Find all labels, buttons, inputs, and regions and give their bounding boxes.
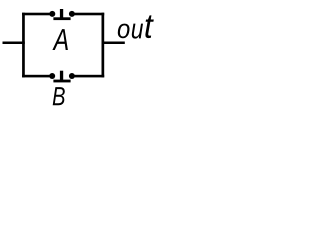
wire: top rail right segment [72,13,104,16]
wire: right branch vertical [102,13,105,78]
switch A plunger bar [53,17,70,20]
switch A plunger stem [60,9,63,18]
switch B contact dot right [69,73,75,79]
label B [53,87,65,105]
label out letter o [118,24,130,39]
switch B plunger bar [53,80,70,83]
switch B contact dot left [49,73,55,79]
switch A contact dot left [49,11,55,17]
wire: bottom rail left segment [22,75,52,78]
switch B plunger stem [60,71,63,81]
wire: bottom rail right segment [72,75,104,78]
label A [52,29,67,50]
label out letter u [132,24,143,39]
switch A contact dot right [69,11,75,17]
wire: input lead (left) [3,42,25,45]
wire: left branch vertical [22,13,25,78]
label out letter t [145,15,153,38]
wire: top rail left segment [22,13,52,16]
wire: output lead [102,42,125,45]
